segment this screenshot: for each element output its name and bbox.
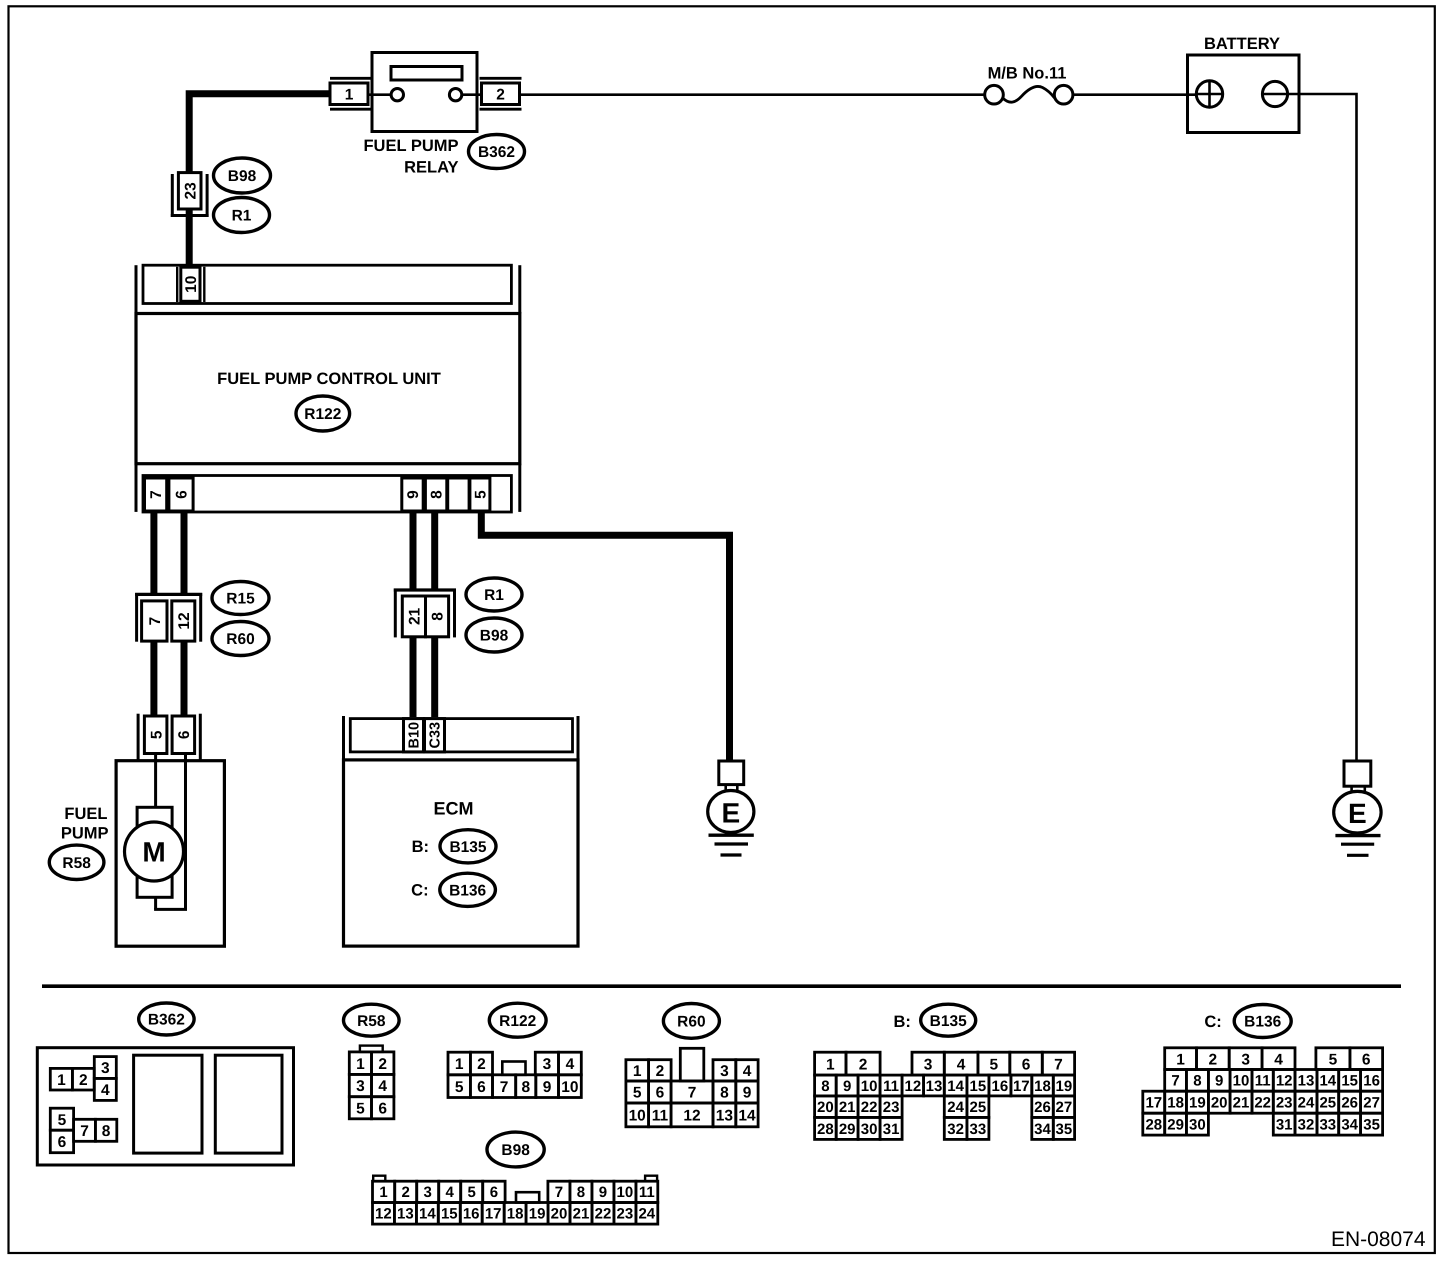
B362 pin 8 xyxy=(95,1119,116,1141)
ECM pin C33 xyxy=(425,719,445,752)
svg-text:23: 23 xyxy=(883,1099,900,1116)
svg-text:3: 3 xyxy=(356,1078,365,1095)
ECM pin B10 xyxy=(404,719,424,752)
svg-text:E: E xyxy=(1348,798,1367,829)
svg-text:R122: R122 xyxy=(499,1013,536,1030)
unit empty cell xyxy=(448,478,469,511)
svg-text:21: 21 xyxy=(1233,1095,1250,1112)
ground E (control unit side) xyxy=(708,761,754,855)
svg-text:13: 13 xyxy=(716,1108,734,1125)
B362 pin 3 xyxy=(94,1057,116,1079)
B98 right notch xyxy=(645,1176,657,1182)
svg-text:7: 7 xyxy=(147,617,164,626)
wire pin9 to connector 21 xyxy=(410,512,417,590)
unit pin 6 xyxy=(169,478,193,511)
svg-text:11: 11 xyxy=(639,1184,655,1201)
svg-text:5: 5 xyxy=(148,730,165,739)
connector label B98 (lower) xyxy=(466,618,522,652)
wire pin5 to ground E xyxy=(481,512,729,761)
svg-text:14: 14 xyxy=(1319,1073,1336,1090)
svg-text:R58: R58 xyxy=(62,855,91,872)
B135 pinout grid xyxy=(815,1052,846,1075)
svg-text:R1: R1 xyxy=(232,208,252,225)
separator line xyxy=(42,984,1401,988)
wire cell12 to cell6 xyxy=(181,642,188,717)
svg-text:ECM: ECM xyxy=(434,799,474,819)
svg-text:22: 22 xyxy=(1254,1095,1271,1112)
ECM label B135 xyxy=(440,830,496,863)
svg-text:7: 7 xyxy=(1054,1056,1063,1073)
pin1 housing top line xyxy=(330,77,374,80)
svg-text:PUMP: PUMP xyxy=(61,825,109,843)
svg-text:FUEL PUMP CONTROL UNIT: FUEL PUMP CONTROL UNIT xyxy=(217,370,441,388)
ECM box xyxy=(344,760,579,946)
svg-text:6: 6 xyxy=(176,730,193,739)
connector label R1 (upper) xyxy=(214,198,270,233)
svg-text:7: 7 xyxy=(1171,1073,1179,1090)
svg-text:1: 1 xyxy=(345,86,354,103)
svg-text:9: 9 xyxy=(743,1085,752,1102)
svg-text:9: 9 xyxy=(599,1184,607,1201)
svg-text:18: 18 xyxy=(1167,1095,1184,1112)
R122 pinout grid xyxy=(502,1062,525,1075)
svg-text:14: 14 xyxy=(419,1206,436,1223)
svg-text:3: 3 xyxy=(543,1056,552,1073)
svg-text:22: 22 xyxy=(595,1206,612,1223)
svg-text:29: 29 xyxy=(839,1121,856,1138)
svg-text:26: 26 xyxy=(1034,1099,1051,1116)
connector label B98 (upper) xyxy=(214,158,271,193)
svg-text:11: 11 xyxy=(1255,1073,1271,1090)
connector 5/6 housing left xyxy=(137,714,140,760)
svg-text:32: 32 xyxy=(947,1121,964,1138)
svg-text:34: 34 xyxy=(1341,1117,1358,1134)
pin1 housing bottom line xyxy=(330,108,374,111)
relay contact 2 xyxy=(449,89,461,101)
unit right side extension (bottom) xyxy=(518,464,521,512)
svg-text:20: 20 xyxy=(1211,1095,1228,1112)
svg-text:1: 1 xyxy=(379,1184,387,1201)
connector cell 7 xyxy=(142,601,167,641)
svg-text:9: 9 xyxy=(405,490,422,499)
svg-text:30: 30 xyxy=(861,1121,878,1138)
pin2 housing bottom line xyxy=(480,108,522,111)
svg-text:8: 8 xyxy=(429,490,446,499)
svg-text:9: 9 xyxy=(543,1079,552,1096)
svg-text:M: M xyxy=(142,836,165,867)
svg-text:2: 2 xyxy=(79,1072,88,1089)
pinout label B98 xyxy=(487,1132,544,1167)
relay pin 1 xyxy=(330,83,368,105)
connector cell 23 xyxy=(178,173,201,209)
svg-text:12: 12 xyxy=(905,1078,922,1095)
svg-text:9: 9 xyxy=(843,1078,851,1095)
B362 pin 6 xyxy=(50,1130,73,1153)
svg-text:24: 24 xyxy=(1298,1095,1315,1112)
wire cell7 to cell5 xyxy=(150,642,157,717)
svg-text:C:: C: xyxy=(411,882,428,900)
wire pin6 to connector 12 xyxy=(181,512,188,594)
svg-text:1: 1 xyxy=(826,1056,835,1073)
connector 21/8 housing right xyxy=(453,589,456,638)
svg-text:35: 35 xyxy=(1056,1121,1073,1138)
svg-text:24: 24 xyxy=(638,1206,655,1223)
svg-text:18: 18 xyxy=(507,1206,524,1223)
svg-text:3: 3 xyxy=(101,1060,110,1077)
svg-text:33: 33 xyxy=(970,1121,987,1138)
svg-text:1: 1 xyxy=(633,1063,642,1080)
svg-text:FUEL: FUEL xyxy=(64,805,107,823)
strip divider left of pin 10 xyxy=(176,267,178,302)
svg-text:5: 5 xyxy=(989,1056,998,1073)
svg-text:9: 9 xyxy=(1215,1073,1223,1090)
svg-text:32: 32 xyxy=(1298,1117,1315,1134)
pinout label R58 xyxy=(344,1004,400,1036)
svg-text:B98: B98 xyxy=(228,168,257,185)
svg-text:1: 1 xyxy=(1176,1051,1185,1068)
svg-text:8: 8 xyxy=(430,612,447,621)
ECM left side extension xyxy=(342,716,345,760)
svg-text:B362: B362 xyxy=(148,1012,185,1029)
svg-text:21: 21 xyxy=(573,1206,590,1223)
svg-text:12: 12 xyxy=(683,1108,700,1125)
svg-text:10: 10 xyxy=(629,1108,646,1125)
connector 7/12 housing right xyxy=(199,593,202,642)
connector cell 6 xyxy=(172,716,195,754)
unit pin 5 xyxy=(470,478,490,511)
svg-text:4: 4 xyxy=(378,1078,387,1095)
svg-text:B10: B10 xyxy=(407,722,423,749)
svg-text:10: 10 xyxy=(861,1078,878,1095)
svg-text:27: 27 xyxy=(1056,1099,1073,1116)
pinout label B136 xyxy=(1234,1005,1291,1038)
svg-text:23: 23 xyxy=(1276,1095,1293,1112)
svg-text:5: 5 xyxy=(455,1079,464,1096)
fuel pump control unit R122 box xyxy=(136,314,520,464)
B98 lock tab xyxy=(516,1192,539,1202)
svg-text:17: 17 xyxy=(485,1206,502,1223)
ECM label B136 xyxy=(440,873,496,906)
svg-text:8: 8 xyxy=(102,1123,111,1140)
svg-text:2: 2 xyxy=(378,1056,387,1073)
svg-text:4: 4 xyxy=(101,1082,110,1099)
svg-text:B:: B: xyxy=(893,1013,910,1031)
svg-text:B135: B135 xyxy=(930,1013,967,1030)
svg-text:3: 3 xyxy=(424,1184,432,1201)
svg-text:R60: R60 xyxy=(677,1014,705,1031)
wire battery to ground E xyxy=(1288,94,1357,761)
connector label R60 (upper) xyxy=(212,622,269,656)
svg-text:25: 25 xyxy=(1319,1095,1336,1112)
svg-text:B135: B135 xyxy=(449,839,486,856)
B136 pinout grid xyxy=(1165,1048,1197,1070)
unit pin 8 xyxy=(425,478,446,511)
svg-text:14: 14 xyxy=(738,1108,756,1125)
B362 relay cavity 2 xyxy=(215,1055,282,1153)
svg-text:B136: B136 xyxy=(1244,1014,1281,1031)
svg-text:2: 2 xyxy=(1208,1051,1217,1068)
svg-text:6: 6 xyxy=(58,1134,67,1151)
svg-text:7: 7 xyxy=(148,490,165,499)
svg-text:2: 2 xyxy=(656,1063,665,1080)
svg-text:M/B No.11: M/B No.11 xyxy=(988,65,1067,83)
svg-text:31: 31 xyxy=(1276,1117,1293,1134)
svg-text:2: 2 xyxy=(496,86,505,103)
svg-text:BATTERY: BATTERY xyxy=(1204,35,1280,53)
svg-text:24: 24 xyxy=(947,1099,964,1116)
svg-text:5: 5 xyxy=(633,1085,642,1102)
svg-text:E: E xyxy=(721,797,740,828)
connector 23 housing left xyxy=(171,174,174,217)
svg-text:8: 8 xyxy=(577,1184,585,1201)
svg-text:2: 2 xyxy=(859,1056,868,1073)
svg-text:3: 3 xyxy=(924,1056,933,1073)
relay coil xyxy=(391,67,462,81)
svg-text:C33: C33 xyxy=(428,722,444,749)
svg-text:2: 2 xyxy=(402,1184,410,1201)
svg-text:23: 23 xyxy=(617,1206,634,1223)
svg-text:B362: B362 xyxy=(478,144,515,161)
svg-text:10: 10 xyxy=(1233,1073,1250,1090)
connector cell 8 xyxy=(426,596,449,637)
svg-text:19: 19 xyxy=(1189,1095,1206,1112)
svg-text:29: 29 xyxy=(1167,1117,1184,1134)
svg-text:23: 23 xyxy=(182,182,199,200)
svg-text:30: 30 xyxy=(1189,1117,1206,1134)
svg-text:34: 34 xyxy=(1034,1121,1051,1138)
R60 lock tab xyxy=(680,1048,704,1081)
svg-text:1: 1 xyxy=(57,1072,66,1089)
connector 23 housing bottom xyxy=(171,214,209,217)
svg-text:4: 4 xyxy=(566,1056,575,1073)
svg-text:B136: B136 xyxy=(449,882,486,899)
svg-text:17: 17 xyxy=(1145,1095,1162,1112)
connector label B362 xyxy=(469,135,525,169)
unit bottom connector strip xyxy=(143,476,511,513)
fuel pump R58 box xyxy=(116,761,224,947)
pump wire brush bottom stub xyxy=(154,897,157,909)
ECM connector strip xyxy=(350,719,572,752)
pump wire cell6 down xyxy=(184,754,187,910)
svg-text:3: 3 xyxy=(720,1063,729,1080)
unit pin 7 xyxy=(145,478,167,511)
svg-text:10: 10 xyxy=(183,276,200,293)
svg-text:28: 28 xyxy=(817,1121,834,1138)
connector label R15 xyxy=(212,582,269,615)
svg-text:5: 5 xyxy=(356,1100,365,1117)
svg-text:11: 11 xyxy=(883,1078,899,1095)
wire connector 23 to control unit pin 10 xyxy=(186,209,193,266)
unit pin 9 xyxy=(402,478,423,511)
svg-text:1: 1 xyxy=(356,1056,365,1073)
pinout label B135 xyxy=(921,1004,976,1036)
wire pin7 to connector 7 xyxy=(150,512,157,594)
svg-text:16: 16 xyxy=(992,1078,1009,1095)
pump label R58 xyxy=(49,845,104,879)
battery minus terminal xyxy=(1262,81,1287,106)
battery plus terminal xyxy=(1196,81,1222,107)
wire relay pin2 to fuse xyxy=(520,93,985,96)
svg-text:13: 13 xyxy=(1298,1073,1315,1090)
svg-text:26: 26 xyxy=(1341,1095,1358,1112)
unit top connector strip xyxy=(143,265,511,303)
ground E (battery side) xyxy=(1334,761,1381,855)
pump wire cell5 to brush xyxy=(154,754,157,809)
svg-text:21: 21 xyxy=(406,607,423,625)
svg-text:13: 13 xyxy=(926,1078,943,1095)
wire pin1 to contact1 xyxy=(368,93,391,96)
svg-text:18: 18 xyxy=(1034,1078,1051,1095)
svg-text:5: 5 xyxy=(58,1112,67,1129)
B362 pin 2 xyxy=(72,1068,94,1090)
svg-text:15: 15 xyxy=(1341,1073,1358,1090)
svg-text:16: 16 xyxy=(463,1206,480,1223)
R58 pinout grid xyxy=(360,1046,383,1052)
wire relay pin1 to connector 23 xyxy=(189,94,330,173)
connector cell 5 xyxy=(144,716,167,754)
pin2 housing top line xyxy=(480,77,522,80)
svg-text:6: 6 xyxy=(378,1100,387,1117)
svg-text:1: 1 xyxy=(455,1056,464,1073)
svg-text:4: 4 xyxy=(743,1063,752,1080)
svg-text:4: 4 xyxy=(957,1056,966,1073)
ECM right side extension xyxy=(577,716,580,760)
wire contact2 to pin2 xyxy=(462,93,482,96)
svg-text:12: 12 xyxy=(176,612,193,629)
connector 21/8 housing left xyxy=(394,589,397,638)
fuel pump relay B362 body xyxy=(372,53,477,132)
svg-text:R1: R1 xyxy=(484,587,504,604)
svg-text:7: 7 xyxy=(688,1085,697,1102)
svg-text:10: 10 xyxy=(561,1079,578,1096)
unit left side extension (bottom) xyxy=(135,464,138,512)
svg-text:10: 10 xyxy=(617,1184,634,1201)
svg-text:19: 19 xyxy=(529,1206,546,1223)
relay contact 1 xyxy=(391,89,403,101)
svg-text:14: 14 xyxy=(947,1078,964,1095)
motor brush rectangle xyxy=(137,807,172,897)
svg-text:8: 8 xyxy=(1193,1073,1201,1090)
svg-text:6: 6 xyxy=(477,1079,486,1096)
svg-text:15: 15 xyxy=(441,1206,458,1223)
svg-text:7: 7 xyxy=(500,1079,509,1096)
svg-text:22: 22 xyxy=(861,1099,878,1116)
svg-text:R60: R60 xyxy=(226,631,254,648)
motor M xyxy=(125,822,184,881)
svg-text:21: 21 xyxy=(839,1099,856,1116)
svg-text:13: 13 xyxy=(397,1206,414,1223)
svg-text:20: 20 xyxy=(551,1206,568,1223)
svg-text:17: 17 xyxy=(1013,1078,1030,1095)
svg-text:8: 8 xyxy=(720,1085,729,1102)
B362 pinout box xyxy=(37,1048,293,1165)
B362 relay cavity 1 xyxy=(134,1055,202,1153)
connector label R1 (lower) xyxy=(466,578,522,611)
wire cell8 to ECM C33 xyxy=(431,637,438,717)
wire cell21 to ECM B10 xyxy=(410,637,417,717)
connector 23 housing right xyxy=(206,174,209,217)
connector 5/6 housing right xyxy=(199,714,202,760)
svg-text:16: 16 xyxy=(1363,1073,1380,1090)
unit label R122 xyxy=(296,396,350,431)
svg-text:C:: C: xyxy=(1204,1013,1221,1031)
connector 7/12 housing left xyxy=(135,593,138,642)
svg-text:25: 25 xyxy=(970,1099,987,1116)
svg-text:15: 15 xyxy=(970,1078,987,1095)
wire fuse to battery xyxy=(1073,93,1197,96)
svg-text:8: 8 xyxy=(821,1078,829,1095)
svg-text:6: 6 xyxy=(174,490,191,499)
svg-text:31: 31 xyxy=(883,1121,900,1138)
svg-text:33: 33 xyxy=(1319,1117,1336,1134)
svg-text:6: 6 xyxy=(656,1085,665,1102)
svg-text:R15: R15 xyxy=(226,591,255,608)
B362 pin 1 xyxy=(50,1068,72,1090)
B362 pin 7 xyxy=(74,1119,96,1141)
svg-text:3: 3 xyxy=(1241,1051,1250,1068)
svg-text:RELAY: RELAY xyxy=(404,158,458,176)
connector cell 12 xyxy=(172,601,195,641)
battery box xyxy=(1188,55,1300,133)
pinout label B362 xyxy=(139,1003,194,1035)
B362 pin 5 xyxy=(50,1108,73,1130)
svg-text:B98: B98 xyxy=(480,628,509,645)
svg-text:27: 27 xyxy=(1363,1095,1380,1112)
R60 pinout grid xyxy=(626,1060,649,1081)
B362 pin 4 xyxy=(94,1078,116,1100)
svg-text:6: 6 xyxy=(490,1184,498,1201)
svg-text:5: 5 xyxy=(472,490,489,499)
relay pin 2 xyxy=(482,83,520,105)
svg-text:2: 2 xyxy=(477,1056,486,1073)
svg-text:12: 12 xyxy=(375,1206,392,1223)
unit pin 10 xyxy=(181,267,200,301)
svg-text:4: 4 xyxy=(446,1184,455,1201)
pinout label R122 xyxy=(489,1003,546,1037)
B98 left notch xyxy=(373,1176,385,1182)
svg-text:11: 11 xyxy=(652,1108,669,1125)
svg-text:5: 5 xyxy=(1329,1051,1338,1068)
svg-text:19: 19 xyxy=(1056,1078,1073,1095)
svg-text:6: 6 xyxy=(1362,1051,1371,1068)
unit left side extension (top) xyxy=(135,265,138,313)
svg-text:7: 7 xyxy=(80,1123,89,1140)
svg-text:R122: R122 xyxy=(304,406,341,423)
svg-text:4: 4 xyxy=(1274,1051,1283,1068)
svg-text:12: 12 xyxy=(1276,1073,1293,1090)
connector 7/12 housing top xyxy=(135,593,202,596)
svg-text:8: 8 xyxy=(521,1079,530,1096)
strip divider right of pin 10 xyxy=(203,267,205,302)
connector cell 21 xyxy=(402,596,425,637)
svg-text:B:: B: xyxy=(412,838,429,856)
svg-text:20: 20 xyxy=(817,1099,834,1116)
svg-text:5: 5 xyxy=(468,1184,476,1201)
svg-text:B98: B98 xyxy=(501,1142,530,1159)
svg-text:R58: R58 xyxy=(357,1013,386,1030)
svg-text:28: 28 xyxy=(1145,1117,1162,1134)
svg-text:EN-08074: EN-08074 xyxy=(1331,1228,1426,1251)
unit right side extension (top) xyxy=(518,265,521,313)
svg-text:7: 7 xyxy=(555,1184,563,1201)
wire pin8 to connector 8 xyxy=(431,512,438,590)
fuse M/B No.11 xyxy=(985,85,1073,104)
pump wire bottom horizontal xyxy=(154,908,187,911)
connector 21/8 housing top xyxy=(394,588,456,591)
svg-text:35: 35 xyxy=(1363,1117,1380,1134)
svg-text:FUEL PUMP: FUEL PUMP xyxy=(363,137,458,155)
svg-text:6: 6 xyxy=(1022,1056,1031,1073)
